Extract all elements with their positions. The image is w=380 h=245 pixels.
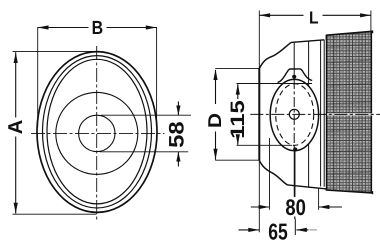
mounting tab top [278, 69, 313, 83]
extension line 115 top [237, 83, 313, 85]
dimension 115 line [237, 84, 239, 145]
basket shoulder bottom [259, 161, 287, 185]
arrow L left [259, 13, 270, 17]
magnet block hatched [327, 31, 372, 193]
extension line 58 bottom [100, 151, 188, 153]
dimension A line [15, 52, 17, 213]
arrow 115 top [236, 84, 240, 95]
seam line near magnet 1 [320, 40, 322, 186]
extension line A top [13, 50, 97, 52]
basket shoulder top [259, 42, 291, 68]
extension line B left [37, 27, 39, 128]
svg-text:D: D [204, 113, 225, 128]
magnet corner lip bottom [369, 191, 373, 195]
dimension D line [215, 70, 217, 160]
terminal hole circle [289, 109, 299, 119]
screw dot top [292, 75, 296, 79]
arrow B right [146, 25, 157, 29]
extension line L left [258, 11, 260, 69]
step to magnet top [325, 35, 327, 40]
flange face edge [258, 68, 260, 160]
extension line D bottom [215, 159, 259, 161]
svg-text:L: L [309, 7, 319, 27]
arrow A bottom [14, 203, 18, 214]
extension line 80 left [269, 138, 271, 210]
arrow D bottom [213, 149, 217, 160]
bolt circle dashed oval [276, 84, 314, 146]
centerline horizontal right view [327, 113, 372, 115]
basket bottom edge [288, 185, 327, 189]
circle dust cap [79, 115, 115, 151]
arrow 65 left [248, 228, 259, 232]
extension line 58 top [101, 114, 191, 116]
dimension 58 stems and arrows [177, 102, 179, 116]
extension line 65 left [258, 162, 260, 232]
arrow 65 right [296, 228, 307, 232]
seam line mid [308, 41, 310, 187]
svg-text:115: 115 [227, 100, 249, 139]
svg-text:58: 58 [165, 121, 188, 148]
extension line A bottom [13, 213, 97, 215]
arrow 80 right [319, 205, 330, 209]
dimension B line [38, 27, 157, 29]
centerline vertical right view [293, 42, 295, 75]
arrow 80 left [259, 205, 270, 209]
svg-text:B: B [92, 18, 104, 39]
extension line L right [370, 11, 372, 32]
arrow 115 bottom [236, 134, 240, 145]
extension line B right [156, 27, 158, 128]
ellipse rim E2 [43, 56, 152, 208]
centerline vertical left view [96, 46, 98, 221]
centerline horizontal left view [31, 132, 165, 134]
mounting oval solid [270, 79, 318, 150]
extension line 115 bottom [237, 144, 293, 146]
arrow L right [360, 13, 371, 17]
magnet texture bands [327, 44, 371, 174]
extension line 80 right [318, 188, 320, 210]
svg-text:80: 80 [285, 195, 306, 220]
step to magnet bottom [325, 189, 327, 190]
circle cone [56, 92, 138, 174]
arrow D top [213, 69, 217, 80]
dimension L line [259, 14, 371, 16]
svg-text:65: 65 [268, 218, 288, 244]
arrow A top [14, 52, 18, 63]
svg-text:A: A [5, 120, 27, 135]
seam line near magnet 2 [323, 40, 325, 187]
screw dot bottom [293, 147, 297, 151]
dimension 65 line [239, 229, 260, 231]
ellipse outer rim E1 [37, 52, 157, 213]
basket top edge [291, 40, 324, 43]
arrow B left [38, 25, 49, 29]
extension line D top [215, 68, 259, 70]
ellipse rim E3 [47, 59, 147, 204]
dimension 80 line [251, 206, 269, 208]
magnet corner lip top [369, 30, 373, 34]
